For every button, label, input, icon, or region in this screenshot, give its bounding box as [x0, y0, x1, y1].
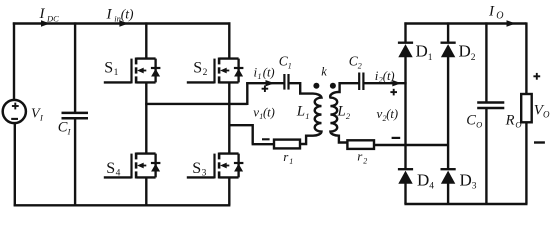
label r_1: [283, 149, 293, 166]
wire: right rectifier leg (D2 to D3): [447, 57, 449, 169]
svg-text:(t): (t): [121, 6, 134, 21]
svg-text:1: 1: [428, 53, 433, 63]
label V_O: [534, 102, 550, 119]
svg-text:4: 4: [116, 169, 121, 179]
label D_1: [416, 42, 433, 63]
svg-text:C: C: [58, 119, 68, 135]
v1 minus sign: [262, 138, 270, 140]
v2 plus sign: [390, 89, 397, 96]
svg-text:3: 3: [472, 182, 477, 192]
svg-text:L: L: [296, 104, 305, 120]
label D_3: [460, 171, 477, 192]
svg-text:S: S: [106, 160, 115, 177]
wire: D3 bottom lead: [447, 184, 449, 205]
diode D4: [398, 169, 413, 184]
svg-text:S: S: [104, 60, 113, 77]
wire: output right vertical bottom: [525, 122, 527, 204]
label V_I: [31, 107, 44, 123]
label C_2: [349, 53, 362, 70]
diode D1: [398, 43, 413, 58]
svg-text:S: S: [192, 160, 201, 177]
wire: D2 top lead: [447, 22, 449, 42]
svg-text:2: 2: [346, 111, 351, 121]
svg-text:DC: DC: [46, 13, 59, 23]
label r_2: [357, 149, 367, 166]
svg-text:2: 2: [363, 157, 367, 166]
wire: S2 drain lead: [228, 22, 230, 58]
wire: v1+ / i1 wire to C1: [246, 82, 284, 84]
svg-text:O: O: [543, 109, 550, 119]
wire: left rectifier leg (D1 to D4): [404, 57, 406, 169]
inductor L1 (primary coil): [289, 83, 322, 144]
I_DC arrow: [41, 20, 50, 27]
wire: rectifier top rail: [404, 22, 526, 24]
wire: left vertical (source bottom lead): [14, 123, 16, 206]
wire: rectifier bottom rail: [404, 203, 527, 205]
transistor S2: [187, 58, 244, 84]
v1 plus sign: [262, 85, 269, 92]
svg-text:I: I: [67, 126, 72, 136]
wire: input top rail: [13, 22, 231, 24]
svg-text:1: 1: [289, 157, 293, 166]
label S4: [106, 160, 120, 179]
label C_1: [279, 53, 292, 70]
wire: primary bottom rail: [14, 204, 231, 206]
svg-text:(t): (t): [383, 69, 395, 83]
label I_O: [488, 3, 503, 21]
svg-text:(t): (t): [263, 105, 275, 119]
transistor S3: [187, 153, 244, 179]
i2 current arrow: [392, 80, 401, 86]
svg-text:3: 3: [202, 169, 207, 179]
label I_DC: [39, 6, 60, 23]
coupling dot primary: [313, 83, 319, 89]
svg-text:L: L: [336, 104, 345, 120]
svg-text:1: 1: [305, 111, 309, 121]
v2 minus sign: [392, 137, 401, 139]
svg-text:4: 4: [429, 182, 434, 192]
V_O plus sign: [533, 73, 540, 80]
svg-text:2: 2: [471, 53, 476, 63]
svg-text:2: 2: [203, 68, 208, 78]
label L_2: [336, 104, 351, 121]
wire: D1 top lead: [404, 22, 406, 42]
svg-text:k: k: [321, 65, 327, 79]
wire: node A riser: [246, 82, 248, 105]
diode D3: [441, 169, 456, 184]
label L_1: [296, 104, 310, 121]
resistor R_O: [521, 94, 532, 122]
wire: node A horizontal (left leg midpoint to riser): [145, 103, 247, 105]
svg-text:D: D: [460, 171, 472, 190]
source V_I: [3, 100, 26, 123]
svg-text:1: 1: [114, 68, 119, 78]
svg-text:(t): (t): [263, 65, 275, 79]
inductor L2 (secondary coil): [330, 83, 359, 142]
label S1: [104, 60, 118, 79]
svg-text:O: O: [496, 11, 503, 22]
svg-text:S: S: [193, 60, 202, 77]
svg-text:O: O: [515, 119, 521, 129]
transistor S4: [104, 153, 161, 179]
label v_2(t): [377, 106, 399, 123]
label k: [321, 65, 327, 79]
I_in(t) arrow: [119, 20, 128, 27]
wire: B node branch (right leg midpoint down to v1-): [229, 125, 252, 144]
label i_1(t): [254, 64, 275, 81]
svg-text:I: I: [39, 6, 46, 22]
wire: v2- wire from r2 to right rectifier leg: [374, 144, 448, 146]
svg-text:O: O: [476, 119, 482, 129]
svg-text:(t): (t): [386, 107, 398, 121]
label S2: [193, 60, 207, 79]
wire: left leg midpoint (S1 source to S4 drain): [145, 82, 147, 153]
diode D2: [441, 43, 456, 58]
label R_O: [505, 112, 522, 129]
label I_in(t): [106, 6, 135, 23]
svg-text:R: R: [505, 112, 515, 128]
wire: D4 bottom lead: [404, 184, 406, 205]
label i_2(t): [375, 68, 395, 85]
I_O arrow: [507, 20, 516, 27]
transistor S1: [104, 58, 161, 84]
wire: i2 wire C2 to rectifier: [363, 82, 406, 84]
svg-text:2: 2: [358, 61, 362, 70]
svg-text:I: I: [488, 3, 495, 19]
svg-text:D: D: [459, 42, 471, 61]
V_O minus sign: [534, 141, 545, 143]
capacitor C2: [359, 73, 363, 91]
capacitor C_I: [62, 22, 89, 205]
svg-text:1: 1: [258, 72, 262, 81]
i1 current arrow: [266, 80, 275, 86]
label D_2: [459, 42, 476, 63]
svg-text:C: C: [466, 112, 476, 128]
label S3: [192, 160, 206, 179]
svg-text:D: D: [417, 171, 429, 190]
wire: S4 source lead: [145, 177, 147, 205]
wire: left vertical (source top lead): [13, 22, 15, 100]
svg-text:1: 1: [288, 61, 292, 70]
wire: right leg midpoint (S2 source to S3 drain): [228, 82, 230, 153]
svg-text:I: I: [39, 113, 44, 123]
capacitor C_O: [477, 22, 504, 204]
resistor r1: [274, 140, 300, 149]
label C_O: [466, 112, 482, 129]
wire: v1- wire into r1: [252, 143, 274, 145]
label v_1(t): [253, 104, 275, 121]
wire: S3 source lead: [228, 177, 230, 205]
svg-text:I: I: [106, 6, 113, 22]
coupling dot secondary: [330, 83, 336, 89]
capacitor C1: [284, 74, 288, 90]
wire: output right vertical top: [525, 22, 527, 94]
svg-text:D: D: [416, 42, 428, 61]
label C_I: [58, 119, 72, 136]
resistor r2: [347, 140, 374, 149]
label D_4: [417, 171, 434, 192]
wire: S1 drain lead: [145, 22, 147, 58]
